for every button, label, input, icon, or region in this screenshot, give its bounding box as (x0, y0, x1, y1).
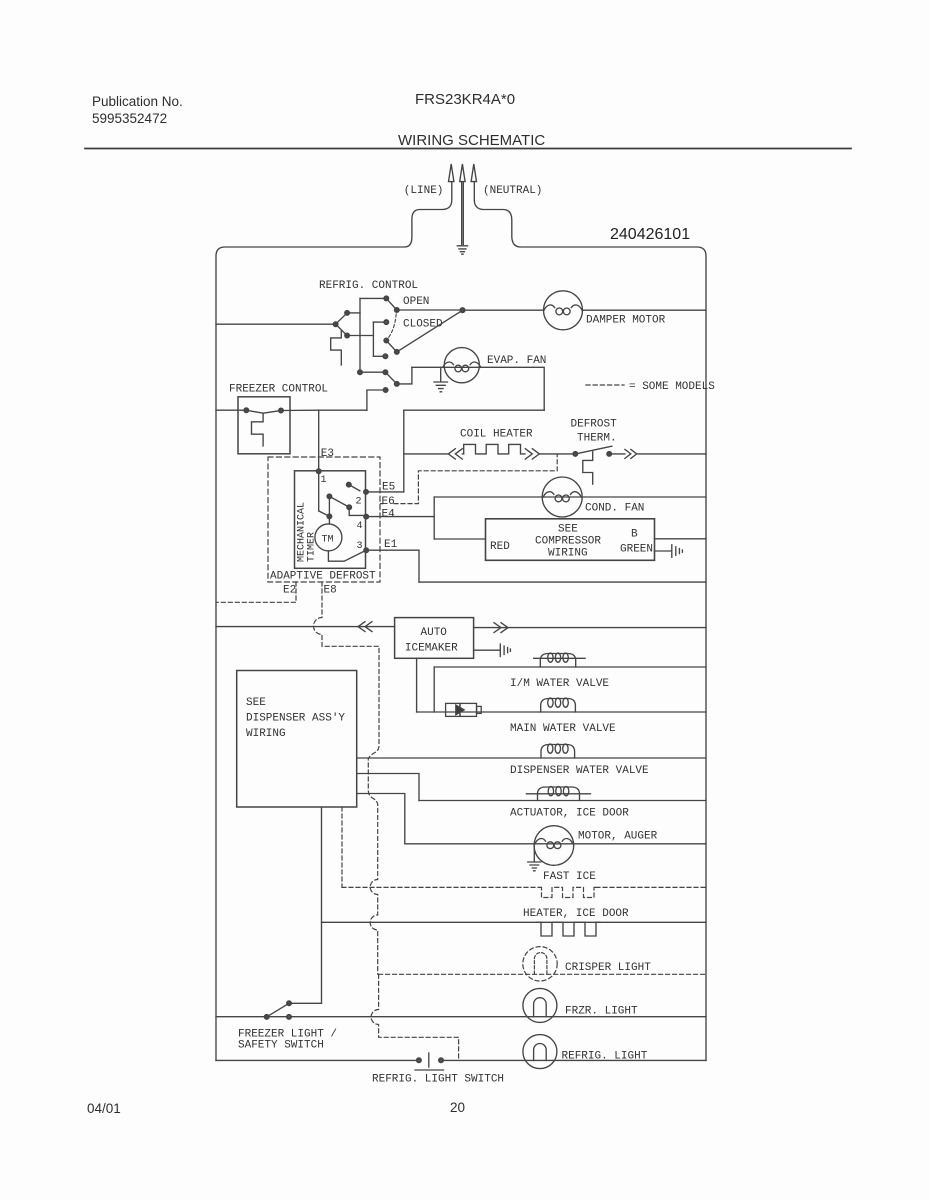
resistor heater ice door (537, 922, 600, 936)
svg-text:E1: E1 (384, 539, 398, 551)
refrig light switch left terminal (417, 1058, 421, 1062)
OPEN pivot terminal E (384, 296, 388, 300)
freezer bus from left border through control (216, 409, 246, 411)
svg-text:FRZR. LIGHT: FRZR. LIGHT (565, 1006, 638, 1018)
refrig light filament (534, 1044, 547, 1061)
timer blade contact to pin2 (349, 485, 360, 491)
wire damper motor to right border (583, 309, 707, 311)
svg-text:E2: E2 (283, 585, 296, 597)
svg-text:ACTUATOR, ICE DOOR: ACTUATOR, ICE DOOR (510, 808, 629, 820)
cond fan winding (543, 492, 581, 497)
main enclosure border left side and top with power-cord bump (216, 182, 452, 1060)
cond fan motor circle (542, 477, 582, 517)
timer TM node terminal (327, 514, 331, 518)
svg-text:SAFETY SWITCH: SAFETY SWITCH (238, 1040, 324, 1052)
svg-text:EVAP. FAN: EVAP. FAN (487, 355, 546, 367)
CLOSED blade H to I (386, 341, 397, 352)
contact terminal J (383, 354, 387, 358)
svg-text:(LINE): (LINE) (404, 185, 444, 197)
wire E1 pin3 right then down (366, 550, 419, 582)
wire E6 dashed some models (381, 455, 558, 504)
timer pin 1 terminal (317, 469, 321, 473)
resistor coil heater (462, 444, 525, 454)
svg-text:GREEN: GREEN (620, 544, 653, 556)
svg-text:DEFROST: DEFROST (571, 419, 618, 431)
ground symbol evap fan (434, 367, 448, 392)
wire I to damper junction diagonal (397, 310, 463, 352)
wire E8 dashed path upper (314, 582, 380, 974)
refrig control bracket vertical (359, 298, 361, 372)
solenoid coil actuator ice door (526, 787, 590, 801)
svg-text:DAMPER MOTOR: DAMPER MOTOR (586, 315, 666, 327)
mechanical timer box (295, 471, 366, 569)
svg-text:SEE: SEE (246, 697, 266, 709)
svg-text:= SOME MODELS: = SOME MODELS (629, 381, 715, 393)
wire evap feed upper bus (404, 409, 544, 411)
svg-text:FRS23KR4A*0: FRS23KR4A*0 (415, 91, 515, 108)
wire icemaker drop to main valve line (416, 658, 418, 712)
svg-text:E4: E4 (382, 509, 396, 521)
wire RED to compressor box (434, 538, 485, 540)
wire freezer light bus (216, 1016, 706, 1018)
timer motor circle TM (315, 524, 342, 551)
svg-text:240426101: 240426101 (610, 226, 690, 243)
solenoid coil i/m water valve (534, 654, 585, 668)
defrost therm terminal right (607, 452, 611, 456)
wire bottom bus right of switch (441, 1059, 706, 1061)
svg-text:E3: E3 (321, 448, 334, 460)
refrig control blade B to C (336, 324, 348, 335)
svg-text:AUTO: AUTO (421, 627, 448, 639)
svg-text:3: 3 (357, 541, 363, 552)
junction node damper feed (460, 308, 464, 312)
wire C to contact rail (347, 335, 373, 337)
freezer control terminal right (279, 408, 283, 412)
svg-text:RED: RED (490, 541, 510, 553)
svg-text:THERM.: THERM. (577, 433, 617, 445)
svg-text:04/01: 04/01 (87, 1101, 121, 1116)
svg-text:E6: E6 (382, 496, 395, 508)
wire E8 dashed path lower (371, 974, 458, 1059)
svg-text:COMPRESSOR: COMPRESSOR (535, 536, 601, 548)
wire i/m valve line (434, 666, 706, 668)
svg-text:MAIN WATER VALVE: MAIN WATER VALVE (510, 723, 616, 735)
timer blade pin1 to TM node (319, 511, 330, 517)
connector plug symbol main valve (446, 703, 482, 716)
wire resistor to defrost therm (539, 453, 575, 455)
svg-text:2: 2 (356, 497, 362, 508)
wire rail to contact J (373, 355, 385, 357)
main enclosure border right side of bump and right border (474, 182, 706, 1060)
wire E3 vertical to timer pin 1 (318, 410, 320, 471)
wire pin1 down (318, 471, 320, 511)
plug prong arrow LINE (449, 164, 454, 182)
svg-text:FAST ICE: FAST ICE (543, 871, 596, 883)
wire safety switch to riser (289, 1002, 322, 1004)
plug prong arrow NEUTRAL (471, 164, 476, 182)
wire icemaker ground stub (474, 649, 500, 651)
wire bracket top to OPEN pivot E (360, 297, 386, 299)
refrig control terminal A (345, 311, 349, 315)
wire main valve line (417, 711, 706, 713)
refrig light lamp circle (523, 1035, 557, 1069)
wire D to K (360, 371, 385, 373)
svg-text:ADAPTIVE DEFROST: ADAPTIVE DEFROST (270, 571, 376, 583)
svg-text:WIRING: WIRING (246, 728, 286, 740)
wire bottom bus left of switch (216, 1059, 419, 1061)
svg-text:4: 4 (357, 521, 363, 532)
crisper light filament (534, 953, 547, 975)
resistor fast ice dashed (540, 887, 596, 897)
wire crisper light dashed line (379, 973, 706, 975)
CLOSED blade tip terminal I (395, 350, 399, 354)
gang linkage dashed arc (389, 314, 397, 338)
wire F to damper junction (397, 309, 463, 311)
timer left contact terminal (327, 494, 331, 498)
timer contact terminal upper floating (347, 483, 351, 487)
connector chevrons defrost out >> (625, 449, 637, 458)
wire heater ice door line (322, 921, 707, 923)
wire E2 dashed to left border (216, 582, 296, 602)
svg-text:REFRIG. CONTROL: REFRIG. CONTROL (319, 280, 418, 292)
auto icemaker box (395, 618, 474, 659)
timer pin 4 terminal (364, 515, 368, 519)
wire M down to freezer bus (367, 390, 386, 410)
svg-text:TM: TM (322, 535, 334, 546)
see dispenser assy wiring box (237, 671, 357, 808)
wire main bus from left border to refrig control pivot (216, 323, 336, 325)
svg-text:DISPENSER ASS'Y: DISPENSER ASS'Y (246, 713, 345, 725)
freezer control blade (246, 410, 281, 413)
freezer control capillary staircase (252, 413, 264, 446)
svg-text:B: B (631, 529, 638, 541)
refrig control contact rail vertical (372, 322, 374, 356)
svg-text:CLOSED: CLOSED (403, 319, 443, 331)
wire cond fan drop to compressor (433, 497, 435, 539)
wire vertical feed to coil heater and E5 (403, 410, 405, 492)
wire defrost therm to right chevrons (609, 453, 625, 455)
wire dispenser box dashed drop (341, 807, 343, 887)
svg-text:HEATER, ICE DOOR: HEATER, ICE DOOR (523, 908, 629, 920)
svg-text:WIRING SCHEMATIC: WIRING SCHEMATIC (398, 132, 545, 149)
wire junction to damper motor (463, 309, 544, 311)
CLOSED pivot terminal H (384, 338, 388, 342)
wire fast ice dashed line with resistor (342, 886, 706, 888)
wire compressor to right border (655, 538, 707, 540)
timer pin 3 terminal (364, 548, 368, 552)
svg-text:(NEUTRAL): (NEUTRAL) (483, 185, 542, 197)
contact terminal G (384, 320, 388, 324)
refrig control blade B to A (336, 313, 348, 324)
wire E4 pin4 to cond fan drop (366, 516, 434, 518)
connector chevrons left << (448, 449, 462, 459)
damper motor circle (544, 291, 583, 330)
evap fan winding (443, 362, 481, 367)
svg-text:E8: E8 (324, 585, 337, 597)
svg-text:DISPENSER WATER VALVE: DISPENSER WATER VALVE (510, 765, 649, 777)
svg-text:MOTOR, AUGER: MOTOR, AUGER (578, 831, 658, 843)
wire i/m drop to main valve line (433, 667, 435, 712)
lower blade tip terminal L (395, 382, 399, 386)
refrig light switch right terminal (439, 1058, 443, 1062)
solenoid coil dispenser water valve (541, 745, 575, 759)
wire E1 bus to right border (419, 581, 706, 583)
chassis ground symbol green (672, 545, 683, 558)
frzr light filament (534, 998, 547, 1017)
refrig control capillary staircase (331, 331, 342, 366)
bottom terminal M (384, 388, 388, 392)
wire left contact rail to TM node (328, 496, 330, 516)
plug prong arrow ground (460, 164, 465, 182)
wire E5 pin2 to heater drop (366, 491, 404, 493)
refrig control terminal C (345, 333, 349, 337)
some models legend dashed sample (586, 384, 624, 386)
svg-text:5995352472: 5995352472 (92, 111, 167, 126)
svg-text:Publication No.: Publication No. (92, 94, 183, 109)
defrost therm capillary staircase (583, 452, 593, 484)
evap fan wire (412, 367, 544, 410)
auger motor circle (534, 826, 574, 866)
wire rail to contact G (373, 321, 386, 323)
svg-text:CRISPER LIGHT: CRISPER LIGHT (565, 962, 651, 974)
svg-text:SEE: SEE (558, 524, 578, 536)
wire auger feed (357, 794, 405, 844)
svg-text:FREEZER CONTROL: FREEZER CONTROL (229, 384, 328, 396)
wire ground prong stem (462, 182, 464, 245)
frzr light lamp circle (523, 988, 557, 1022)
crisper light lamp dashed circle (523, 947, 557, 981)
wire L to evap fan line (397, 367, 412, 384)
connector chevrons icemaker out >> (494, 623, 508, 633)
svg-text:OPEN: OPEN (403, 296, 429, 308)
timer mid contact terminal (347, 505, 351, 509)
adaptive defrost dashed box (268, 457, 380, 582)
connector chevrons icemaker << (358, 622, 372, 632)
refrig control pivot terminal B (334, 322, 338, 326)
svg-text:I/M WATER VALVE: I/M WATER VALVE (510, 678, 609, 690)
safety switch lower terminal (287, 1015, 291, 1019)
ground symbol auger motor (528, 846, 541, 871)
svg-text:COIL HEATER: COIL HEATER (460, 429, 533, 441)
defrost therm terminal left (573, 452, 577, 456)
wire GREEN to chassis ground (655, 550, 672, 552)
freezer control terminal left (244, 408, 248, 412)
refrig light switch base bar (415, 1069, 444, 1071)
solenoid coil main water valve (541, 699, 576, 713)
wire actuator ice door line (419, 800, 706, 802)
lower pole pivot terminal K (383, 370, 387, 374)
OPEN blade E to F (386, 298, 397, 310)
svg-text:WIRING: WIRING (548, 548, 588, 560)
svg-text:1: 1 (321, 475, 327, 486)
timer blade left contact to mid contact (329, 496, 349, 507)
wire terminal A to bracket (347, 312, 360, 314)
svg-text:E5: E5 (382, 482, 395, 494)
connector chevrons right >> (525, 449, 539, 459)
freezer control box (238, 397, 290, 454)
svg-text:TIMER: TIMER (307, 532, 318, 562)
evap fan motor circle (444, 348, 479, 383)
wire icemaker out to right border (474, 627, 706, 629)
header rule (85, 148, 851, 150)
wire TM motor to pin 3 (328, 550, 366, 561)
icemaker bus from left border (216, 626, 395, 628)
wire coil heater line left segment (404, 453, 449, 455)
svg-text:ICEMAKER: ICEMAKER (405, 643, 458, 655)
lower blade K to L (385, 372, 396, 384)
refrig light switch plunger bar (428, 1053, 430, 1067)
cond fan wire (434, 496, 706, 498)
svg-text:REFRIG. LIGHT SWITCH: REFRIG. LIGHT SWITCH (372, 1074, 504, 1086)
ground symbol below plug (457, 246, 467, 254)
safety switch pivot terminal (265, 1015, 269, 1019)
lower pole pivot terminal D (358, 370, 362, 374)
timer pin 2 terminal (364, 490, 368, 494)
chassis ground symbol icemaker (500, 644, 510, 657)
damper motor winding (544, 305, 582, 310)
wire freezer control to switch drop (281, 409, 367, 411)
compressor box (486, 519, 655, 561)
wire TM node to motor (328, 516, 330, 523)
wire actuator feed (357, 774, 419, 801)
svg-text:COND. FAN: COND. FAN (585, 503, 644, 515)
safety switch upper terminal (287, 1001, 291, 1005)
wire motor auger line (405, 843, 706, 845)
svg-text:20: 20 (450, 1100, 465, 1115)
auger motor winding (535, 839, 573, 844)
safety switch blade (267, 1003, 289, 1017)
wire to right border (637, 453, 706, 455)
header publication block (92, 91, 545, 149)
wire dispenser water valve line (357, 757, 706, 759)
wire safety switch riser (321, 807, 323, 1003)
OPEN blade tip terminal F (395, 308, 399, 312)
defrost therm blade (576, 446, 612, 454)
wire mid contact to pin 4 (349, 507, 366, 515)
